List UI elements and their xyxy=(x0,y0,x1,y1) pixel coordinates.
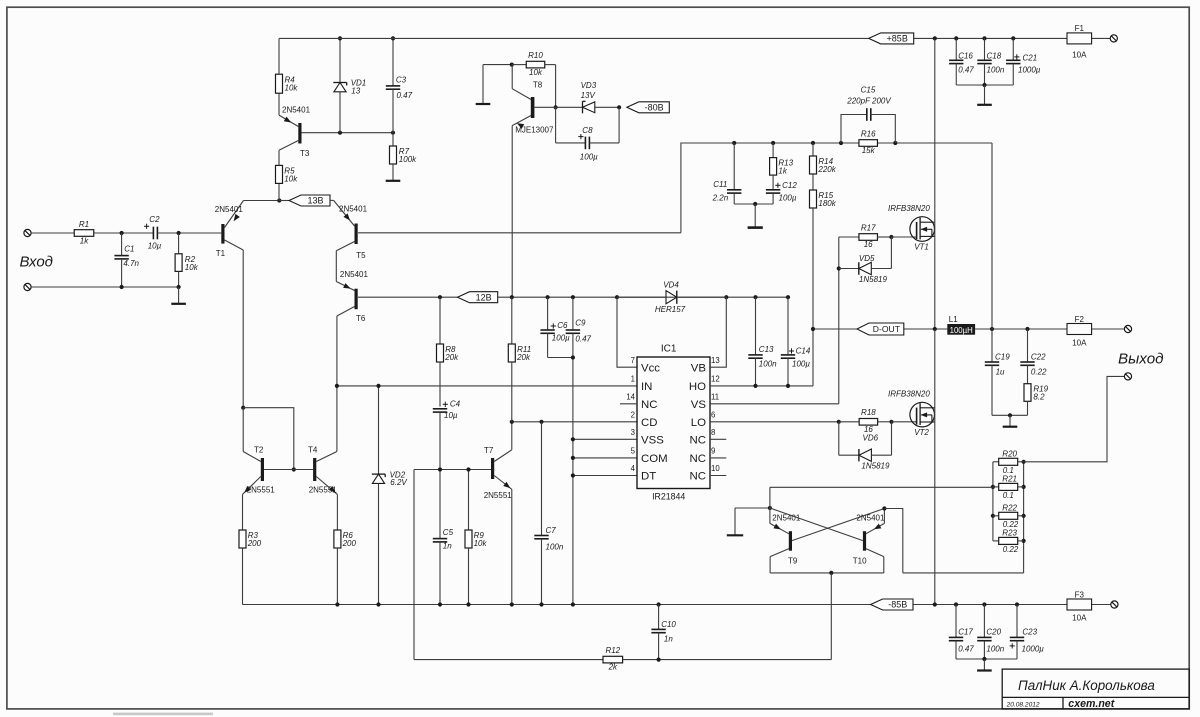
terminal output sense xyxy=(1124,373,1131,380)
capacitor C21 xyxy=(1006,38,1041,85)
svg-text:100µ: 100µ xyxy=(779,193,797,202)
node T1 collector junction xyxy=(241,406,245,410)
wire T1 emitter to 13V node xyxy=(244,200,280,202)
flag -80V xyxy=(627,102,669,113)
svg-text:220pF 200V: 220pF 200V xyxy=(846,97,891,106)
resistor R3 xyxy=(239,494,262,604)
svg-text:C2: C2 xyxy=(149,215,160,224)
svg-text:1n: 1n xyxy=(664,635,673,644)
svg-text:0.47: 0.47 xyxy=(575,335,591,344)
wire T7 base line xyxy=(414,467,491,471)
wire VT2 drain/source vertical xyxy=(934,329,936,605)
wire T10 emitter to source node xyxy=(884,509,902,573)
svg-text:0.1: 0.1 xyxy=(1003,491,1014,500)
svg-text:C11: C11 xyxy=(713,180,727,189)
wire T7 base to R12 xyxy=(413,470,415,660)
svg-text:T4: T4 xyxy=(308,446,318,455)
wire VB feed (pin 13) xyxy=(710,297,726,367)
svg-text:100µ: 100µ xyxy=(552,333,570,342)
svg-text:0.22: 0.22 xyxy=(1003,545,1019,554)
svg-text:R12: R12 xyxy=(605,646,620,655)
svg-text:1u: 1u xyxy=(996,367,1005,376)
svg-text:220k: 220k xyxy=(817,165,836,174)
wire T8 emitter down xyxy=(511,126,513,298)
svg-text:HO: HO xyxy=(689,381,706,393)
wire input lower rail xyxy=(31,285,181,289)
svg-text:9: 9 xyxy=(711,447,715,456)
svg-text:10A: 10A xyxy=(1072,50,1087,59)
svg-text:20.08.2012: 20.08.2012 xyxy=(1006,701,1040,708)
ground at C18 xyxy=(977,85,992,105)
zener diode VD1 xyxy=(333,36,366,132)
svg-text:1N5819: 1N5819 xyxy=(861,462,890,471)
svg-text:14: 14 xyxy=(626,393,635,402)
svg-text:F1: F1 xyxy=(1075,24,1085,33)
capacitor C6 xyxy=(540,297,573,357)
resistor R1 xyxy=(74,220,94,246)
wire R10 to T8 base xyxy=(554,65,558,110)
wire R17 left to VD5 xyxy=(837,237,841,271)
transistor T3 2N5401 xyxy=(279,106,311,159)
svg-text:13: 13 xyxy=(351,87,360,96)
wire VS line (pin 11) xyxy=(710,269,839,404)
capacitor C18 xyxy=(977,38,1005,85)
resistor R11 xyxy=(508,297,531,422)
svg-text:Vcc: Vcc xyxy=(641,362,660,374)
resistor R5 xyxy=(276,150,299,200)
wire +85V rail xyxy=(279,36,1110,40)
svg-text:5: 5 xyxy=(631,447,636,456)
svg-text:100n: 100n xyxy=(987,65,1005,74)
svg-text:C1: C1 xyxy=(124,245,134,254)
svg-text:VD6: VD6 xyxy=(863,433,879,442)
svg-text:100n: 100n xyxy=(759,360,777,369)
svg-text:100n: 100n xyxy=(546,543,564,552)
resistor R22 xyxy=(993,503,1024,529)
flag D-OUT xyxy=(857,323,904,335)
label Vyhod xyxy=(1118,350,1164,367)
svg-text:C23: C23 xyxy=(1022,627,1037,636)
svg-text:VSS: VSS xyxy=(641,435,664,447)
svg-text:VB: VB xyxy=(691,362,706,374)
wire T1 collector down xyxy=(242,250,244,408)
wire DT line (pin 4) xyxy=(571,473,637,477)
svg-text:2N5401: 2N5401 xyxy=(340,270,369,279)
svg-text:1000µ: 1000µ xyxy=(1022,644,1045,653)
svg-text:C21: C21 xyxy=(1023,53,1038,62)
wire ladder bottom to source node xyxy=(903,572,1024,574)
resistor R8 xyxy=(437,297,460,406)
svg-text:100µ: 100µ xyxy=(580,153,598,162)
svg-text:20k: 20k xyxy=(516,353,531,362)
svg-text:VD3: VD3 xyxy=(581,81,597,90)
svg-text:R1: R1 xyxy=(79,220,89,229)
svg-text:C5: C5 xyxy=(443,528,454,537)
flag -85V xyxy=(871,599,913,610)
svg-text:2N5401: 2N5401 xyxy=(339,205,368,214)
svg-text:VD4: VD4 xyxy=(663,280,679,289)
svg-text:4: 4 xyxy=(631,464,636,473)
svg-text:10A: 10A xyxy=(1072,339,1087,348)
resistor R16 xyxy=(859,130,878,155)
capacitor C8 xyxy=(556,107,620,161)
capacitor C23 xyxy=(1010,605,1045,660)
wire R1 to C2 xyxy=(94,231,154,235)
svg-text:10k: 10k xyxy=(285,83,299,92)
svg-text:COM: COM xyxy=(641,453,668,465)
wire T5 collector to T6 emitter xyxy=(335,251,337,282)
wire capacitor group join top-right xyxy=(956,83,1013,87)
svg-text:C17: C17 xyxy=(958,627,973,636)
svg-text:Вход: Вход xyxy=(20,254,53,271)
svg-text:MJE13007: MJE13007 xyxy=(515,125,554,134)
svg-text:C16: C16 xyxy=(958,51,973,60)
capacitor C4 xyxy=(433,400,461,470)
svg-text:6: 6 xyxy=(711,411,715,420)
svg-text:C22: C22 xyxy=(1031,353,1046,362)
svg-text:1: 1 xyxy=(631,375,635,384)
svg-text:C9: C9 xyxy=(575,318,586,327)
svg-text:2N5401: 2N5401 xyxy=(856,514,885,523)
capacitor C19 xyxy=(985,143,1010,415)
svg-text:C4: C4 xyxy=(450,400,461,409)
svg-text:NC: NC xyxy=(641,399,657,411)
svg-text:C20: C20 xyxy=(986,627,1001,636)
wire HO line (pin 12) xyxy=(710,329,813,388)
flag 12V xyxy=(458,292,498,303)
svg-text:T3: T3 xyxy=(300,149,310,158)
resistor R21 xyxy=(993,474,1024,500)
wire feedback line to R21 xyxy=(770,486,993,488)
node T9 emitter xyxy=(768,506,772,510)
svg-text:CD: CD xyxy=(641,417,657,429)
diode VD4 HER157 xyxy=(617,280,726,314)
svg-text:C7: C7 xyxy=(546,526,557,535)
wire divider rail xyxy=(732,141,992,145)
node T10 emitter xyxy=(882,506,886,510)
svg-text:13V: 13V xyxy=(581,91,596,100)
resistor R12 xyxy=(414,646,831,672)
svg-text:R20: R20 xyxy=(1002,449,1017,458)
svg-text:7: 7 xyxy=(631,356,635,365)
svg-text:16: 16 xyxy=(864,240,873,249)
terminal -85V xyxy=(1111,601,1118,608)
capacitor C5 xyxy=(433,470,454,605)
svg-text:2N5551: 2N5551 xyxy=(247,486,276,495)
ground at R10 xyxy=(476,65,491,104)
svg-text:VT1: VT1 xyxy=(914,243,929,252)
resistor R23 xyxy=(993,528,1024,554)
resistor R17 xyxy=(839,223,917,249)
svg-text:13: 13 xyxy=(711,356,720,365)
capacitor C22 xyxy=(1020,329,1047,384)
diode VD6 1N5819 xyxy=(839,422,892,471)
ground at R7 xyxy=(386,180,401,182)
capacitor C20 xyxy=(977,605,1005,660)
wire T1 collector to T2-T4 base xyxy=(243,408,296,472)
resistor R4 xyxy=(276,38,299,115)
svg-text:R22: R22 xyxy=(1002,503,1017,512)
svg-text:HER157: HER157 xyxy=(655,305,686,314)
resistor R10 xyxy=(512,51,556,77)
svg-text:C3: C3 xyxy=(396,75,407,84)
svg-text:2N5401: 2N5401 xyxy=(282,106,311,115)
svg-text:C10: C10 xyxy=(661,620,676,629)
transistor T4 2N5551 xyxy=(308,386,338,495)
svg-text:100n: 100n xyxy=(986,644,1004,653)
diode VD5 1N5819 xyxy=(839,237,892,284)
svg-text:T8: T8 xyxy=(533,81,543,90)
wire T5 base to divider rail xyxy=(681,143,734,233)
transistor T8 MJE13007 xyxy=(512,65,555,135)
svg-text:10k: 10k xyxy=(474,539,488,548)
svg-text:100µ: 100µ xyxy=(792,360,810,369)
title block xyxy=(1002,669,1189,710)
svg-text:10µ: 10µ xyxy=(148,241,162,250)
capacitor C3 xyxy=(386,36,413,132)
scan artifact bar below frame xyxy=(113,713,213,716)
ground at C11/C12 xyxy=(748,204,763,228)
zener diode VD2 xyxy=(372,386,408,605)
svg-text:2N5551: 2N5551 xyxy=(484,491,513,500)
inductor L1 xyxy=(947,315,975,335)
svg-text:VD5: VD5 xyxy=(859,254,875,263)
transistor T7 2N5551 xyxy=(484,422,513,605)
transistor T10 2N5401 xyxy=(853,509,885,573)
capacitor C12 xyxy=(766,181,797,204)
capacitor C16 xyxy=(949,38,974,85)
svg-text:100k: 100k xyxy=(399,155,417,164)
svg-text:0.47: 0.47 xyxy=(958,644,974,653)
capacitor C7 xyxy=(534,422,564,605)
svg-text:T2: T2 xyxy=(254,446,264,455)
wire ladder right chain xyxy=(1022,460,1026,573)
input terminal X1b xyxy=(24,283,31,290)
svg-text:10µ: 10µ xyxy=(444,411,458,420)
resistor R7 xyxy=(390,133,418,180)
svg-text:C8: C8 xyxy=(582,126,593,135)
svg-text:100µH: 100µH xyxy=(950,326,973,335)
svg-text:1k: 1k xyxy=(778,167,787,176)
capacitor C1 xyxy=(114,233,139,287)
zener diode VD3 xyxy=(556,81,622,113)
svg-text:ПалНик А.Королькова: ПалНик А.Королькова xyxy=(1018,678,1155,693)
node 13V junction xyxy=(277,198,281,202)
svg-text:200: 200 xyxy=(342,539,357,548)
svg-text:R21: R21 xyxy=(1002,474,1017,483)
svg-text:1k: 1k xyxy=(80,237,89,246)
svg-text:0.47: 0.47 xyxy=(397,91,413,100)
svg-text:8: 8 xyxy=(711,428,715,437)
fuse F2 xyxy=(1067,315,1092,348)
svg-text:0.47: 0.47 xyxy=(958,65,974,74)
ground at C20 xyxy=(977,659,992,671)
svg-text:-80В: -80В xyxy=(645,103,664,113)
svg-text:15k: 15k xyxy=(862,146,876,155)
svg-text:R23: R23 xyxy=(1002,528,1017,537)
input terminal X1a xyxy=(24,229,31,236)
flag 13V xyxy=(279,195,330,206)
svg-text:200: 200 xyxy=(247,539,262,548)
resistor R14 xyxy=(810,143,837,190)
wire T2-T4 base link xyxy=(264,469,313,471)
resistor R15 xyxy=(810,190,837,329)
svg-text:C13: C13 xyxy=(759,345,774,354)
svg-text:cxem.net: cxem.net xyxy=(1068,698,1114,710)
wire input to R1 xyxy=(31,232,74,234)
ground at C19/R19 xyxy=(1003,415,1018,426)
terminal +85V xyxy=(1110,35,1117,42)
svg-text:12В: 12В xyxy=(476,292,492,302)
ground at R2 xyxy=(171,287,186,304)
transistor T9 2N5401 xyxy=(770,508,801,573)
resistor R2 xyxy=(175,233,199,287)
svg-text:8.2: 8.2 xyxy=(1033,393,1045,402)
svg-text:IRFB38N20: IRFB38N20 xyxy=(888,204,930,213)
svg-text:4.7n: 4.7n xyxy=(123,259,139,268)
ground at T9 xyxy=(727,508,770,535)
svg-text:11: 11 xyxy=(711,393,719,402)
svg-text:2: 2 xyxy=(631,411,635,420)
wire T5 base line xyxy=(358,232,681,234)
wire T10 base cross-couple xyxy=(770,508,863,541)
svg-text:VS: VS xyxy=(691,399,707,411)
resistor R13 xyxy=(770,143,794,190)
svg-text:IN: IN xyxy=(641,381,652,393)
svg-text:NC: NC xyxy=(690,453,706,465)
svg-text:2N5401: 2N5401 xyxy=(772,514,801,523)
terminal output F2 xyxy=(1124,325,1131,332)
resistor R18 xyxy=(839,408,917,434)
svg-text:IRFB38N20: IRFB38N20 xyxy=(888,390,930,399)
svg-text:6.2V: 6.2V xyxy=(390,478,407,487)
svg-text:0.22: 0.22 xyxy=(1031,367,1047,376)
wire VSS line (pin 3) xyxy=(571,437,637,441)
op-amp IC1 IR21844 body xyxy=(620,344,726,502)
svg-text:20k: 20k xyxy=(444,353,459,362)
svg-text:2k: 2k xyxy=(608,663,618,672)
svg-text:R18: R18 xyxy=(861,408,876,417)
wire ground to R10 xyxy=(483,63,514,67)
svg-text:1N5819: 1N5819 xyxy=(859,275,888,284)
svg-text:C19: C19 xyxy=(995,353,1010,362)
svg-text:R16: R16 xyxy=(861,130,876,139)
mosfet VT2 IRFB38N20 xyxy=(888,390,935,438)
fuse F1 xyxy=(1067,24,1092,59)
svg-text:DT: DT xyxy=(641,471,656,483)
svg-text:2N5401: 2N5401 xyxy=(215,205,244,214)
wire output sense xyxy=(1024,376,1125,461)
svg-text:13В: 13В xyxy=(307,196,323,206)
svg-text:3: 3 xyxy=(631,428,635,437)
wire capacitor group join bottom-right xyxy=(956,657,1017,661)
svg-text:2N5551: 2N5551 xyxy=(309,486,338,495)
resistor R20 xyxy=(993,449,1024,475)
resistor R6 xyxy=(334,494,357,604)
svg-text:T10: T10 xyxy=(853,556,867,565)
svg-text:C18: C18 xyxy=(987,51,1002,60)
svg-text:C6: C6 xyxy=(557,321,568,330)
wire COM line (pin 5) xyxy=(571,456,637,460)
svg-text:IC1: IC1 xyxy=(661,344,677,355)
svg-text:L1: L1 xyxy=(949,315,958,324)
svg-text:C15: C15 xyxy=(861,86,876,95)
wire 12V rail xyxy=(358,295,790,299)
wire CD line (pin 2) xyxy=(510,420,637,424)
capacitor C15 xyxy=(841,86,895,143)
svg-text:10A: 10A xyxy=(1072,614,1087,623)
svg-text:12: 12 xyxy=(711,375,720,384)
wire Vcc feed (pin 7) xyxy=(617,297,637,367)
wire T9 base cross-couple xyxy=(792,509,884,541)
mosfet VT1 IRFB38N20 xyxy=(888,204,935,252)
resistor R19 xyxy=(1024,384,1049,416)
svg-text:+85В: +85В xyxy=(887,34,908,44)
wire T9 node to feedback line xyxy=(769,487,771,508)
svg-text:10: 10 xyxy=(711,464,720,473)
svg-text:-85В: -85В xyxy=(888,600,907,610)
wire VT1 drain/source vertical xyxy=(934,38,936,329)
wire IN line (pin 1) xyxy=(335,384,637,388)
wire T9-T10 collector bottom xyxy=(770,571,884,575)
resistor R9 xyxy=(465,470,487,605)
wire C11-C12 join xyxy=(734,202,773,206)
svg-text:10k: 10k xyxy=(185,263,199,272)
svg-text:VT2: VT2 xyxy=(914,428,929,437)
flag +85V xyxy=(869,33,914,44)
label Vhod xyxy=(20,254,53,271)
svg-text:2.2n: 2.2n xyxy=(712,193,729,202)
svg-text:R10: R10 xyxy=(528,51,543,60)
svg-text:IR21844: IR21844 xyxy=(652,492,685,502)
transistor T1 2N5401 xyxy=(215,201,244,259)
svg-text:10k: 10k xyxy=(529,68,543,77)
svg-text:C14: C14 xyxy=(796,346,811,355)
svg-text:NC: NC xyxy=(690,471,706,483)
wire D-OUT switch node xyxy=(811,327,1125,331)
capacitor C11 xyxy=(712,143,742,204)
svg-text:10k: 10k xyxy=(284,174,298,183)
wire ladder left chain xyxy=(991,462,995,541)
svg-text:T1: T1 xyxy=(216,249,226,258)
svg-text:R17: R17 xyxy=(861,223,876,232)
svg-text:D-OUT: D-OUT xyxy=(873,324,901,334)
svg-text:F3: F3 xyxy=(1075,590,1085,599)
wire LO line (pin 6) xyxy=(710,420,841,424)
wire C2 to T1 base xyxy=(157,231,221,235)
svg-text:NC: NC xyxy=(690,435,706,447)
capacitor C2 xyxy=(144,215,162,250)
svg-text:1n: 1n xyxy=(443,541,452,550)
capacitor C10 xyxy=(651,605,676,660)
capacitor C17 xyxy=(949,605,975,660)
capacitor C14 xyxy=(781,297,811,386)
transistor T2 2N5551 xyxy=(242,408,275,495)
transistor T6 2N5401 xyxy=(336,270,368,323)
svg-text:T9: T9 xyxy=(788,556,798,565)
svg-text:T7: T7 xyxy=(484,446,494,455)
svg-text:T6: T6 xyxy=(356,314,366,323)
wire T3 base line xyxy=(302,131,396,135)
wire -85V rail xyxy=(243,602,1111,606)
capacitor C9 xyxy=(566,297,592,604)
transistor T5 2N5401 xyxy=(330,200,368,260)
svg-text:C12: C12 xyxy=(782,181,797,190)
wire T6 collector down to IN line xyxy=(336,316,338,386)
svg-text:1000µ: 1000µ xyxy=(1018,65,1041,74)
wire C19-R19 join xyxy=(992,413,1028,417)
svg-text:F2: F2 xyxy=(1075,315,1085,324)
